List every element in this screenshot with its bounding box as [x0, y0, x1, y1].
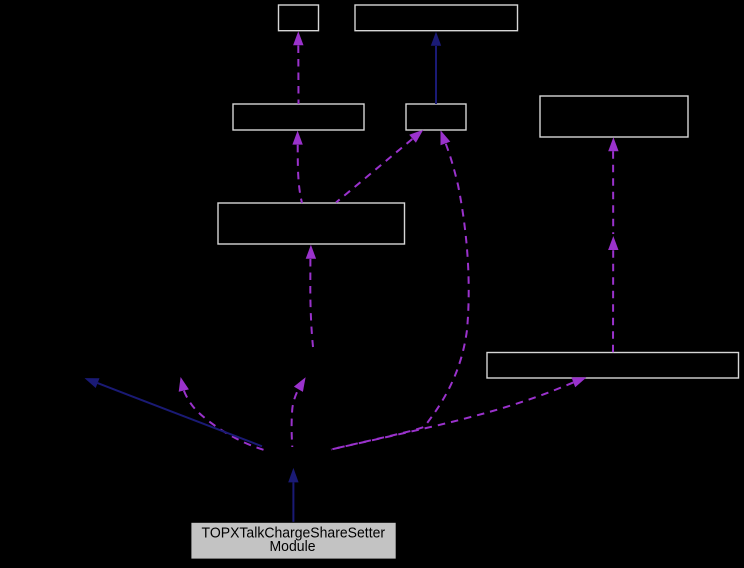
svg-text:Module: Module: [270, 538, 316, 555]
